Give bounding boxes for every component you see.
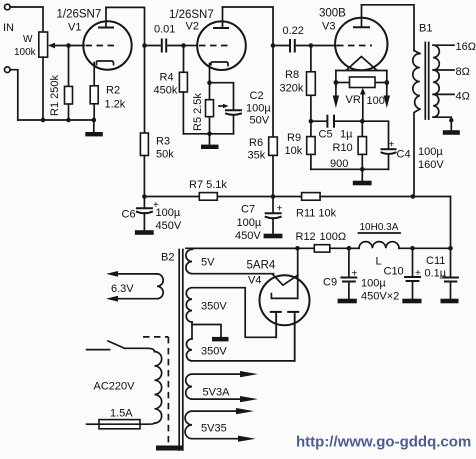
svg-text:100k: 100k	[14, 47, 37, 58]
svg-text:50V: 50V	[250, 115, 270, 127]
svg-text:http://www.go-gddq.com: http://www.go-gddq.com	[296, 434, 471, 451]
resistor R2 1.2k	[90, 85, 126, 121]
capacitor C10 100u	[384, 248, 422, 303]
tap 4 ohm	[433, 91, 470, 103]
node: V1 grid junction	[66, 43, 71, 48]
node: C9 junction	[347, 246, 352, 251]
capacitor C9 100u	[323, 248, 399, 303]
svg-text:0.01: 0.01	[154, 24, 175, 36]
node: R2 bottom on bus	[92, 118, 97, 123]
B+ rail wire (R11 to corner)	[320, 196, 450, 198]
wire: V3 plate to B1 primary	[362, 5, 415, 51]
node: V2 grid junction	[181, 43, 186, 48]
transformer B2 core	[179, 250, 183, 451]
node: R8/R9/C5 junction	[309, 119, 314, 124]
node: C7/R6 junction	[271, 194, 276, 199]
capacitor C5 1u	[311, 116, 362, 141]
node: C11 junction	[448, 246, 453, 251]
svg-text:V1: V1	[68, 22, 81, 34]
svg-text:450V: 450V	[235, 230, 261, 242]
svg-text:R9: R9	[287, 132, 301, 144]
svg-text:C7: C7	[241, 204, 255, 216]
svg-text:8Ω: 8Ω	[456, 66, 470, 78]
svg-text:R7 5.1k: R7 5.1k	[189, 179, 227, 191]
svg-text:R2: R2	[106, 85, 120, 97]
svg-text:R6: R6	[249, 137, 263, 149]
svg-text:100µ: 100µ	[361, 278, 386, 290]
svg-text:5V35: 5V35	[201, 423, 227, 435]
svg-text:320k: 320k	[280, 83, 304, 95]
svg-text:5AR4: 5AR4	[247, 260, 276, 272]
resistor R12 100ohm	[296, 231, 347, 252]
svg-text:0.1µ: 0.1µ	[425, 268, 447, 280]
svg-text:900: 900	[330, 158, 348, 170]
winding 5V35	[185, 411, 227, 439]
wire: 5V bottom to V4 filament	[192, 273, 274, 275]
svg-text:B1: B1	[419, 23, 432, 35]
svg-text:R4: R4	[160, 72, 174, 84]
svg-text:R8: R8	[285, 69, 299, 81]
fuse 1.5A	[87, 408, 140, 429]
svg-text:100: 100	[367, 95, 385, 107]
svg-text:16Ω: 16Ω	[456, 41, 476, 53]
wire: plate node down to R3	[144, 46, 146, 134]
capacitor C7 100u 450V	[235, 197, 283, 243]
potentiometer W 100k	[14, 32, 69, 120]
svg-text:L: L	[376, 256, 382, 268]
arrow: filament supply right	[384, 83, 390, 109]
transformer B1 secondary	[433, 45, 439, 117]
input jack J1 (top)	[5, 4, 44, 32]
svg-text:R1 250k: R1 250k	[49, 75, 61, 116]
svg-text:C10: C10	[384, 266, 404, 278]
svg-text:B2: B2	[161, 252, 174, 264]
resistor R7 5.1k	[189, 179, 227, 200]
wire: 350V lower bottom to V4 right plate	[192, 312, 295, 361]
center tap to ground	[192, 322, 229, 341]
svg-text:+: +	[352, 269, 358, 280]
svg-text:+: +	[389, 140, 395, 151]
node: VR left end	[334, 80, 339, 85]
svg-text:C11: C11	[426, 255, 445, 267]
svg-text:450V: 450V	[156, 220, 182, 232]
svg-text:4Ω: 4Ω	[456, 91, 470, 103]
node: VR right end	[384, 80, 389, 85]
svg-text:1/26SN7: 1/26SN7	[57, 9, 102, 21]
ground: input bus	[85, 120, 103, 136]
capacitor C2 100u 50V	[219, 90, 271, 134]
resistor R1 250k	[49, 46, 73, 121]
choke L 10H 0.3A	[359, 222, 401, 268]
svg-text:C4: C4	[397, 149, 411, 161]
svg-text:+: +	[277, 204, 283, 215]
svg-text:350V: 350V	[201, 346, 227, 358]
svg-text:AC220V: AC220V	[94, 381, 136, 393]
capacitor C11 0.1u	[425, 248, 459, 303]
winding 5V	[186, 249, 215, 273]
resistor R4 450k	[154, 46, 188, 134]
wire: choke to rail corner	[399, 247, 451, 249]
B+ rail wire (R7 to R11)	[217, 196, 301, 198]
svg-text:+: +	[415, 268, 421, 279]
svg-text:35k: 35k	[248, 150, 266, 162]
svg-text:R11 10k: R11 10k	[296, 208, 337, 220]
capacitor C1 0.01 coupling	[145, 24, 184, 52]
tube V4 5AR4	[260, 248, 310, 361]
tap 8 ohm	[433, 66, 470, 78]
svg-text:R12: R12	[296, 231, 316, 243]
svg-text:W: W	[23, 34, 33, 45]
svg-text:160V: 160V	[418, 159, 444, 171]
node: return junction	[360, 167, 365, 172]
node: C10 junction	[410, 246, 415, 251]
wire: filament left drop	[335, 71, 337, 88]
capacitor C3 0.22 coupling	[273, 25, 311, 52]
svg-text:5V: 5V	[201, 257, 215, 269]
node: V2 cathode junction	[207, 80, 212, 85]
svg-text:100µ: 100µ	[246, 103, 271, 115]
resistor R11 10k	[296, 193, 337, 220]
svg-text:100Ω: 100Ω	[320, 231, 347, 243]
node: VR wiper/R10/C4 junction	[360, 119, 365, 124]
capacitor C6 100u 450V	[122, 197, 182, 235]
arrow: 5V3A bottom lead	[192, 396, 258, 402]
wire: grid node to V2	[184, 45, 198, 47]
node: 5AR4 cathode junction	[295, 246, 300, 251]
node: pot bottom on bus	[41, 118, 46, 123]
svg-text:R5 2.5k: R5 2.5k	[192, 93, 204, 131]
arrow: 5V3A top lead	[192, 371, 258, 377]
svg-text:C6: C6	[122, 209, 136, 221]
resistor R9 10k	[285, 121, 316, 169]
wire: 5V top to cathode node	[192, 248, 298, 249]
svg-text:10k: 10k	[285, 145, 303, 157]
wire: V2 plate to 0.22	[223, 7, 274, 46]
svg-text:C9: C9	[323, 277, 337, 289]
winding 350V lower	[186, 339, 227, 361]
svg-text:450k: 450k	[154, 85, 178, 97]
capacitor C4 100u 160V	[362, 121, 444, 171]
B+ rail wire	[144, 196, 199, 198]
transformer B1 primary	[413, 51, 420, 196]
wire: rail corner down to choke output	[450, 197, 452, 249]
wire: grid node to V3	[311, 45, 336, 47]
transformer B1 core	[425, 43, 428, 120]
svg-text:100µ: 100µ	[156, 207, 181, 219]
wire: filament right drop	[386, 71, 388, 88]
svg-text:300B: 300B	[319, 8, 346, 20]
wire: grid node to V1	[69, 45, 85, 47]
resistor R10 900	[330, 121, 367, 170]
tap 16 ohm	[433, 41, 476, 53]
svg-text:V2: V2	[186, 21, 199, 33]
resistor R6 35k	[248, 46, 278, 197]
node: R5 bottom	[207, 132, 212, 137]
arrow: filament supply left	[333, 83, 339, 109]
svg-text:C5: C5	[319, 129, 333, 141]
wire: input ground bus	[18, 119, 94, 121]
node: R1 bottom on bus	[66, 118, 71, 123]
svg-text:1µ: 1µ	[340, 129, 353, 141]
tube V1 1/26SN7	[83, 7, 131, 85]
svg-text:6.3V: 6.3V	[111, 283, 134, 295]
arrow: 5V35 top lead	[192, 408, 254, 414]
svg-text:V3: V3	[322, 21, 335, 33]
input jack J2 (bottom)	[5, 67, 18, 120]
svg-text:50k: 50k	[156, 149, 174, 161]
node: B1 primary bottom on rail	[411, 194, 416, 199]
svg-text:1/26SN7: 1/26SN7	[169, 9, 214, 21]
winding 350V upper	[186, 288, 227, 322]
svg-text:V4: V4	[248, 275, 261, 287]
svg-text:100µ: 100µ	[237, 217, 262, 229]
wire: R12 to choke	[330, 247, 359, 249]
node: V3 grid junction	[309, 43, 314, 48]
winding 5V3A	[186, 374, 230, 399]
wire: rectifier output line	[186, 247, 314, 249]
svg-text:R10: R10	[333, 142, 353, 154]
resistor R8 320k	[280, 46, 316, 122]
tube V2 1/26SN7	[197, 7, 246, 83]
shield dashed line and ground	[143, 337, 182, 451]
svg-text:10H0.3A: 10H0.3A	[360, 222, 399, 233]
node: C6 junction	[142, 194, 147, 199]
node: V2 plate junction	[271, 43, 276, 48]
node: V1 plate junction	[142, 43, 147, 48]
ground: 300B cathode network	[353, 169, 372, 185]
winding 6.3V	[106, 271, 163, 302]
tube V3 300B	[335, 5, 387, 70]
ground: V2 cathode	[201, 134, 219, 149]
arrow: 5V35 bottom lead	[192, 436, 256, 442]
resistor R5 2.5k	[192, 83, 214, 134]
power switch	[87, 341, 155, 352]
svg-text:1.5A: 1.5A	[110, 408, 133, 420]
winding AC220V primary	[94, 352, 162, 425]
svg-text:1.2k: 1.2k	[105, 99, 126, 111]
svg-text:0.22: 0.22	[283, 25, 304, 37]
wire: cathode node to C2	[210, 83, 234, 110]
svg-text:IN: IN	[3, 22, 14, 34]
wire: cathode network return	[311, 168, 389, 170]
wire: V2 cathode return	[183, 133, 233, 135]
svg-text:VR: VR	[346, 94, 361, 106]
ground: B1 secondary bottom	[433, 117, 460, 135]
svg-text:450V×2: 450V×2	[361, 291, 399, 303]
svg-text:C2: C2	[250, 90, 264, 102]
wire: 350V upper top to V4 left plate	[192, 288, 276, 338]
svg-text:R3: R3	[156, 136, 170, 148]
wire: V1 plate to coupling node	[106, 7, 145, 45]
resistor R3 50k	[140, 133, 174, 197]
potentiometer VR 100 (hum balance)	[336, 77, 387, 121]
wire: V3 filament bar	[336, 70, 387, 72]
svg-text:100µ: 100µ	[418, 146, 443, 158]
svg-text:350V: 350V	[201, 301, 227, 313]
svg-text:5V3A: 5V3A	[203, 387, 231, 399]
